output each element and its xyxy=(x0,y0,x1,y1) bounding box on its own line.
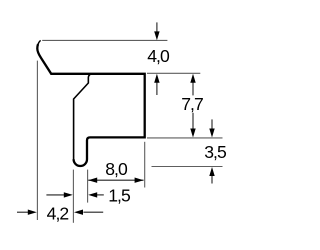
svg-text:4,0: 4,0 xyxy=(147,46,170,66)
svg-text:1,5: 1,5 xyxy=(108,185,131,205)
dim 4,0 top arrow xyxy=(156,22,158,31)
dim 7,7 bottom arrow xyxy=(192,113,194,129)
extension line x=87.6 xyxy=(87,170,89,203)
dim 1,5 right arrow xyxy=(97,194,104,196)
dim 7,7 top arrow xyxy=(192,82,194,95)
dim 3,5 bottom arrow xyxy=(211,176,213,184)
datum line y=166.2 (leg bottom tangent) xyxy=(152,166,223,168)
svg-text:4,2: 4,2 xyxy=(47,203,69,223)
svg-text:8,0: 8,0 xyxy=(105,159,128,179)
extension line x=37.4 xyxy=(36,61,38,220)
dim 1,5 left arrow xyxy=(46,194,64,196)
profile outline: hook lip, flange bottom, right edge, bottom edge, leg xyxy=(37,44,144,166)
datum line y=137.6 xyxy=(147,137,223,139)
dim 3,5 top arrow xyxy=(211,119,213,128)
dim 4,2 left arrow xyxy=(17,211,28,213)
profile hook lip tip (tapered) xyxy=(38,40,41,45)
datum line y=73.3 xyxy=(147,72,200,74)
extension line x=73.4 xyxy=(72,170,74,223)
profile inner edge: leg left wall and diagonal xyxy=(74,75,91,160)
dim 8,0 line with outward arrows xyxy=(88,179,143,181)
svg-text:7,7: 7,7 xyxy=(181,94,203,114)
extension line x=144.7 xyxy=(144,142,146,188)
dim 4,2 right arrow xyxy=(83,211,103,213)
svg-text:3,5: 3,5 xyxy=(204,142,227,162)
top datum line xyxy=(42,39,167,41)
dim 4,0 bottom arrow xyxy=(156,82,158,95)
